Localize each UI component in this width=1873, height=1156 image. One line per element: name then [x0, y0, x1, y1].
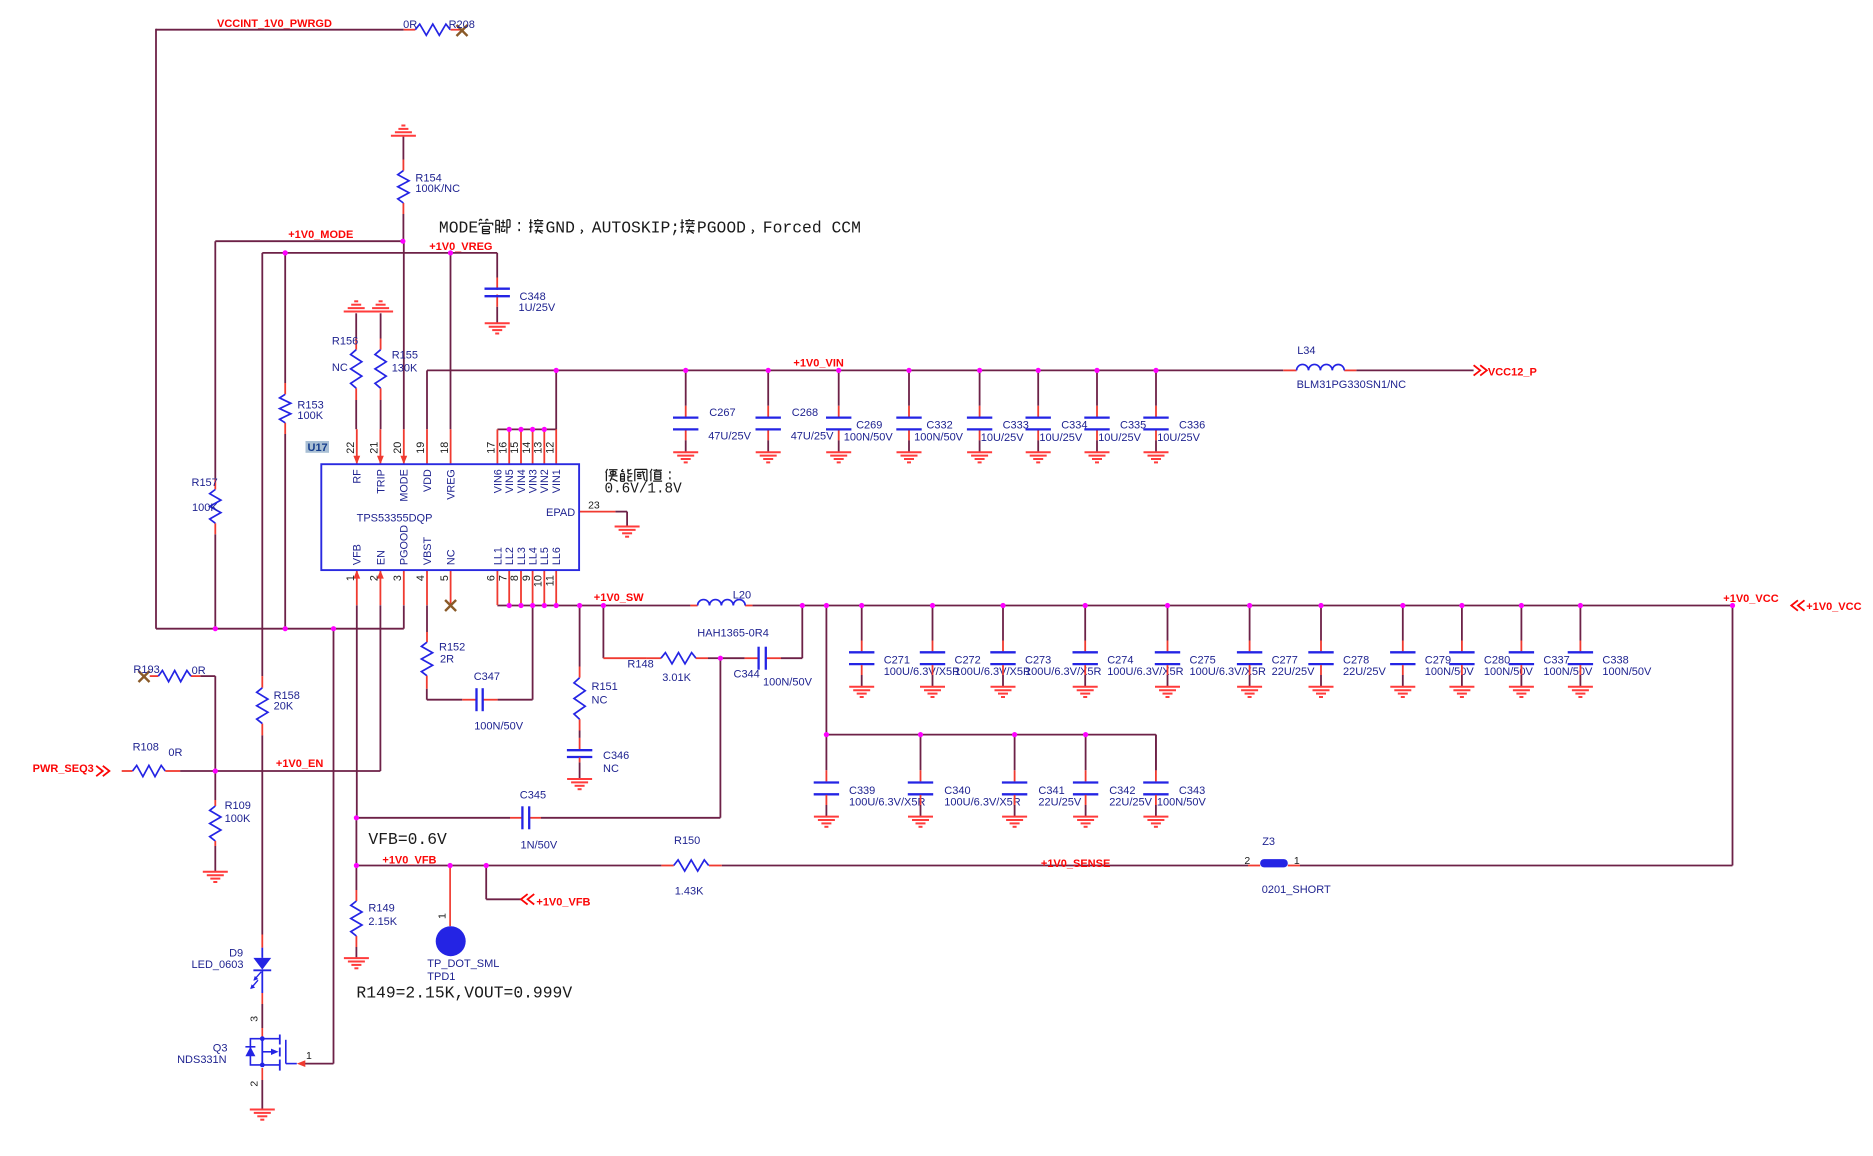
svg-text:U17: U17: [308, 442, 328, 454]
svg-text:R157: R157: [192, 477, 218, 489]
svg-text:0201_SHORT: 0201_SHORT: [1262, 884, 1331, 896]
svg-text:100K: 100K: [192, 502, 218, 514]
svg-text:100K: 100K: [297, 410, 323, 422]
svg-text:C336: C336: [1179, 419, 1205, 431]
svg-text:13: 13: [533, 442, 545, 454]
svg-text:+1V0_SW: +1V0_SW: [594, 592, 644, 604]
svg-text:VREG: VREG: [446, 469, 458, 500]
svg-text:2: 2: [369, 575, 381, 581]
svg-text:0.6V/1.8V: 0.6V/1.8V: [605, 481, 683, 497]
svg-text:NC: NC: [446, 549, 458, 565]
svg-text:+1V0_SENSE: +1V0_SENSE: [1041, 858, 1110, 870]
svg-text:100N/50V: 100N/50V: [844, 432, 894, 444]
svg-text:C268: C268: [792, 407, 818, 419]
svg-text:R148: R148: [627, 658, 653, 670]
svg-text:0R: 0R: [403, 19, 417, 31]
svg-text:R208: R208: [449, 19, 475, 31]
svg-text:LL1: LL1: [492, 547, 504, 565]
svg-text:EPAD: EPAD: [546, 507, 575, 519]
svg-text:VCCINT_1V0_PWRGD: VCCINT_1V0_PWRGD: [217, 18, 332, 30]
svg-text:LL3: LL3: [516, 547, 528, 565]
svg-text:Z3: Z3: [1262, 836, 1275, 848]
svg-text:100N/50V: 100N/50V: [1484, 666, 1534, 678]
svg-text:Forced CCM: Forced CCM: [763, 219, 861, 238]
svg-text:NC: NC: [603, 763, 619, 775]
svg-text:17: 17: [486, 442, 498, 454]
svg-text:L20: L20: [733, 590, 751, 602]
svg-text:LL6: LL6: [551, 547, 563, 565]
svg-text:LL2: LL2: [504, 547, 516, 565]
svg-text:1U/25V: 1U/25V: [519, 302, 556, 314]
svg-text:100N/50V: 100N/50V: [1543, 666, 1593, 678]
svg-text:PWR_SEQ3: PWR_SEQ3: [33, 763, 94, 775]
svg-text:100N/50V: 100N/50V: [1157, 796, 1207, 808]
svg-text:MODE: MODE: [399, 469, 411, 501]
svg-text:TRIP: TRIP: [375, 469, 387, 494]
svg-text:0R: 0R: [168, 747, 182, 759]
svg-text:R109: R109: [225, 800, 251, 812]
svg-text:C271: C271: [884, 654, 910, 666]
svg-text:NC: NC: [332, 362, 348, 374]
svg-text:47U/25V: 47U/25V: [708, 431, 751, 443]
svg-text:C273: C273: [1025, 654, 1051, 666]
svg-text:PGOOD: PGOOD: [399, 525, 411, 565]
svg-text:R152: R152: [439, 642, 465, 654]
svg-text:C278: C278: [1343, 654, 1369, 666]
svg-text:NDS331N: NDS331N: [177, 1054, 227, 1066]
svg-text:C279: C279: [1425, 654, 1451, 666]
svg-text:VFB=0.6V: VFB=0.6V: [368, 830, 447, 849]
svg-text:VIN6: VIN6: [492, 469, 504, 493]
svg-text:2.15K: 2.15K: [368, 916, 397, 928]
svg-text:VIN5: VIN5: [504, 469, 516, 493]
svg-text:100K: 100K: [225, 813, 251, 825]
svg-text:LED_0603: LED_0603: [192, 959, 244, 971]
svg-text:R156: R156: [332, 335, 358, 347]
svg-text:47U/25V: 47U/25V: [791, 431, 834, 443]
svg-text:100U/6.3V/X5R: 100U/6.3V/X5R: [849, 796, 925, 808]
svg-text:22U/25V: 22U/25V: [1272, 666, 1315, 678]
svg-text:22: 22: [345, 442, 357, 454]
svg-text:R151: R151: [592, 681, 618, 693]
svg-text:21: 21: [369, 442, 381, 454]
svg-text:10U/25V: 10U/25V: [1039, 432, 1082, 444]
svg-text:C274: C274: [1107, 654, 1133, 666]
svg-text:C343: C343: [1179, 785, 1205, 797]
svg-text:L34: L34: [1297, 345, 1315, 357]
svg-text:4: 4: [415, 575, 427, 581]
svg-text:1: 1: [436, 913, 448, 919]
svg-text:C333: C333: [1003, 419, 1029, 431]
svg-text:2: 2: [1244, 855, 1250, 867]
svg-text:VFB: VFB: [352, 544, 364, 565]
svg-text:20: 20: [392, 442, 404, 454]
svg-text:10U/25V: 10U/25V: [1157, 432, 1200, 444]
svg-text:D9: D9: [229, 948, 243, 960]
svg-text:C269: C269: [856, 419, 882, 431]
svg-text:C342: C342: [1109, 785, 1135, 797]
svg-text:5: 5: [439, 575, 451, 581]
svg-text:C338: C338: [1602, 654, 1628, 666]
svg-text:20K: 20K: [274, 701, 294, 713]
svg-text:MODE: MODE: [439, 219, 478, 238]
svg-text:RF: RF: [352, 469, 364, 484]
svg-text:8: 8: [509, 575, 521, 581]
svg-text:R149: R149: [368, 903, 394, 915]
svg-text:3: 3: [392, 575, 404, 581]
svg-text:100U/6.3V/X5R: 100U/6.3V/X5R: [1025, 666, 1101, 678]
svg-text:EN: EN: [375, 550, 387, 565]
svg-text:NC: NC: [592, 695, 608, 707]
svg-text:10U/25V: 10U/25V: [981, 432, 1024, 444]
svg-text:1N/50V: 1N/50V: [521, 839, 558, 851]
svg-text:1: 1: [1294, 855, 1300, 867]
svg-text:C337: C337: [1543, 654, 1569, 666]
svg-text:+1V0_VREG: +1V0_VREG: [429, 241, 492, 253]
svg-text:C339: C339: [849, 785, 875, 797]
svg-text:18: 18: [439, 442, 451, 454]
svg-text:100U/6.3V/X5R: 100U/6.3V/X5R: [884, 666, 960, 678]
svg-text:C275: C275: [1190, 654, 1216, 666]
svg-text:100U/6.3V/X5R: 100U/6.3V/X5R: [944, 796, 1020, 808]
svg-text:19: 19: [415, 442, 427, 454]
svg-text:23: 23: [588, 499, 600, 511]
svg-text:22U/25V: 22U/25V: [1343, 666, 1386, 678]
svg-text:15: 15: [509, 442, 521, 454]
svg-text:C341: C341: [1038, 785, 1064, 797]
svg-text:VIN3: VIN3: [528, 469, 540, 493]
svg-text:Q3: Q3: [213, 1042, 228, 1054]
svg-text:100K/NC: 100K/NC: [415, 183, 460, 195]
svg-text:C344: C344: [734, 669, 760, 681]
svg-text:GND: GND: [546, 219, 575, 238]
svg-text:100N/50V: 100N/50V: [763, 676, 813, 688]
svg-text:100N/50V: 100N/50V: [474, 720, 524, 732]
svg-text:100U/6.3V/X5R: 100U/6.3V/X5R: [1190, 666, 1266, 678]
svg-text:+1V0_VCC: +1V0_VCC: [1723, 593, 1778, 605]
svg-text:1.43K: 1.43K: [675, 886, 704, 898]
svg-text:R150: R150: [674, 835, 700, 847]
svg-text:C280: C280: [1484, 654, 1510, 666]
svg-text:6: 6: [486, 575, 498, 581]
svg-text:100N/50V: 100N/50V: [914, 432, 964, 444]
svg-text:100N/50V: 100N/50V: [1602, 666, 1652, 678]
svg-text:10: 10: [533, 575, 545, 587]
svg-text:12: 12: [544, 442, 556, 454]
svg-text:LL5: LL5: [539, 547, 551, 565]
svg-text:11: 11: [544, 575, 556, 586]
svg-text:C345: C345: [520, 790, 546, 802]
svg-text:+1V0_MODE: +1V0_MODE: [288, 229, 353, 241]
svg-text:100U/6.3V/X5R: 100U/6.3V/X5R: [1107, 666, 1183, 678]
svg-text:R149=2.15K,VOUT=0.999V: R149=2.15K,VOUT=0.999V: [356, 984, 572, 1003]
svg-text:R155: R155: [392, 350, 418, 362]
svg-text:+1V0_EN: +1V0_EN: [276, 758, 323, 770]
svg-text:3: 3: [248, 1016, 260, 1022]
svg-text:+1V0_VIN: +1V0_VIN: [793, 358, 844, 370]
svg-text:C335: C335: [1120, 419, 1146, 431]
svg-text:AUTOSKIP;: AUTOSKIP;: [592, 219, 680, 238]
svg-text:VIN4: VIN4: [516, 469, 528, 493]
svg-text:LL4: LL4: [528, 547, 540, 565]
svg-text:7: 7: [497, 575, 509, 581]
svg-text:TPS53355DQP: TPS53355DQP: [357, 512, 433, 524]
svg-text:C332: C332: [926, 419, 952, 431]
svg-text:C347: C347: [474, 671, 500, 683]
svg-text:+1V0_VCC: +1V0_VCC: [1806, 601, 1861, 613]
svg-text:R108: R108: [133, 742, 159, 754]
svg-text:2: 2: [248, 1081, 260, 1087]
svg-text:PGOOD: PGOOD: [697, 219, 746, 238]
svg-text:TP_DOT_SML: TP_DOT_SML: [427, 958, 499, 970]
svg-text:C346: C346: [603, 750, 629, 762]
svg-text:VIN1: VIN1: [551, 469, 563, 493]
svg-text:2R: 2R: [440, 653, 454, 665]
svg-text:22U/25V: 22U/25V: [1109, 796, 1152, 808]
svg-text:+1V0_VFB: +1V0_VFB: [382, 854, 436, 866]
svg-text:C272: C272: [955, 654, 981, 666]
svg-text:VCC12_P: VCC12_P: [1488, 366, 1537, 378]
svg-text:TPD1: TPD1: [427, 971, 455, 983]
svg-text:100U/6.3V/X5R: 100U/6.3V/X5R: [955, 666, 1031, 678]
svg-text:10U/25V: 10U/25V: [1098, 432, 1141, 444]
svg-text:C340: C340: [944, 785, 970, 797]
svg-text:130K: 130K: [392, 363, 418, 375]
svg-text:9: 9: [521, 575, 533, 581]
svg-text:22U/25V: 22U/25V: [1038, 796, 1081, 808]
svg-text:VIN2: VIN2: [539, 469, 551, 493]
svg-text:VBST: VBST: [422, 536, 434, 565]
svg-text:1: 1: [345, 575, 357, 581]
svg-text:C267: C267: [709, 407, 735, 419]
svg-text:16: 16: [497, 442, 509, 454]
svg-text:R193: R193: [133, 664, 159, 676]
svg-text:C277: C277: [1272, 654, 1298, 666]
svg-text:0R: 0R: [192, 665, 206, 677]
svg-text:VDD: VDD: [422, 469, 434, 492]
svg-text:BLM31PG330SN1/NC: BLM31PG330SN1/NC: [1297, 379, 1406, 391]
svg-text:14: 14: [521, 442, 533, 454]
svg-text:C334: C334: [1061, 419, 1087, 431]
svg-text:C348: C348: [520, 291, 546, 303]
svg-text:+1V0_VFB: +1V0_VFB: [536, 896, 590, 908]
svg-text:3.01K: 3.01K: [662, 672, 691, 684]
svg-text:HAH1365-0R4: HAH1365-0R4: [697, 628, 769, 640]
svg-text:100N/50V: 100N/50V: [1425, 666, 1475, 678]
svg-text:1: 1: [306, 1050, 312, 1062]
